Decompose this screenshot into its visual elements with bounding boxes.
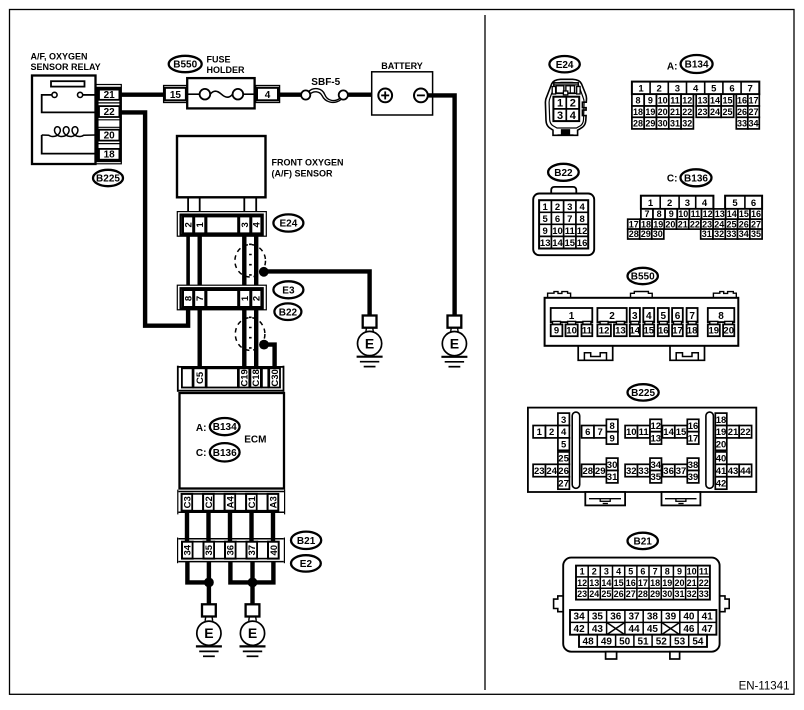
wire 36 to junction <box>230 562 252 583</box>
svg-text:C5: C5 <box>195 371 206 384</box>
svg-text:26: 26 <box>614 589 624 599</box>
connector B21 pin 40 <box>268 542 279 559</box>
junction shield-C30 <box>259 340 269 350</box>
svg-text:29: 29 <box>645 119 655 129</box>
wire relay 22 to E3-8 <box>121 112 189 325</box>
connector B225 pins 23-44 <box>533 452 752 490</box>
wire C2-35 <box>206 511 210 542</box>
shield drain dashes <box>249 244 252 279</box>
svg-text:49: 49 <box>601 636 613 647</box>
connector B225 pins 1-22 <box>533 413 752 451</box>
svg-text:4: 4 <box>616 567 621 577</box>
svg-text:46: 46 <box>683 624 695 635</box>
svg-text:28: 28 <box>629 229 639 239</box>
battery negative terminal <box>414 89 428 103</box>
connector B225 separator bar left <box>572 412 580 488</box>
ground E battery connector square <box>448 316 462 328</box>
connector B136 row pins 17-27 <box>628 219 762 229</box>
svg-text:1: 1 <box>569 311 575 322</box>
svg-text:4: 4 <box>252 222 263 228</box>
junction 34-35 <box>204 578 214 588</box>
svg-text:18: 18 <box>104 150 116 161</box>
svg-text:A/F, OXYGEN: A/F, OXYGEN <box>31 52 88 62</box>
ECM blank cell <box>192 494 203 511</box>
ECM blank cell <box>207 368 238 387</box>
relay K1 box <box>32 76 96 165</box>
svg-text:6: 6 <box>751 198 756 209</box>
connector strip separator lines <box>97 103 120 144</box>
svg-text:40: 40 <box>716 454 727 465</box>
svg-text:B22: B22 <box>279 307 298 318</box>
svg-text:37: 37 <box>676 466 687 477</box>
svg-text:30: 30 <box>658 119 668 129</box>
svg-text:12: 12 <box>651 421 662 432</box>
svg-text:27: 27 <box>751 219 761 229</box>
connector B134 row pins 28- <box>632 117 759 129</box>
svg-text:39: 39 <box>665 612 677 623</box>
svg-text:12: 12 <box>577 226 588 237</box>
svg-text:13: 13 <box>697 96 707 106</box>
svg-text:3: 3 <box>604 567 609 577</box>
ground E battery circle E <box>442 332 466 356</box>
svg-text:34: 34 <box>739 229 749 239</box>
svg-text:5: 5 <box>561 440 567 451</box>
svg-text:B136: B136 <box>684 173 708 184</box>
svg-text:E: E <box>365 336 374 352</box>
wire E24-2 to E3-8 <box>186 235 190 285</box>
svg-text:14: 14 <box>601 578 611 588</box>
svg-text:1: 1 <box>557 98 563 110</box>
connector E24 face grid <box>553 97 579 121</box>
svg-text:15: 15 <box>170 90 182 101</box>
svg-text:4: 4 <box>702 198 708 209</box>
ECM pin C3 <box>182 494 193 511</box>
svg-text:12: 12 <box>577 578 587 588</box>
svg-text:SENSOR RELAY: SENSOR RELAY <box>31 62 101 72</box>
svg-text:7: 7 <box>644 209 649 219</box>
oval B21 <box>291 532 321 549</box>
svg-text:14: 14 <box>727 209 737 219</box>
relay K1 contact bar <box>51 81 85 86</box>
svg-text:14: 14 <box>710 96 720 106</box>
wire 37 to ground <box>250 562 254 605</box>
connector E3 blank cell <box>206 290 238 307</box>
connector B134 row pins 8- <box>632 94 759 106</box>
svg-text:11: 11 <box>565 226 576 237</box>
wire C3-34 <box>185 511 189 542</box>
svg-text:9: 9 <box>543 226 548 237</box>
wire 34 to junction <box>187 562 209 583</box>
svg-text:20: 20 <box>658 107 668 117</box>
svg-text:45: 45 <box>647 624 659 635</box>
connector E3/B22 outer <box>177 285 266 310</box>
svg-text:2: 2 <box>252 296 263 301</box>
svg-text:18: 18 <box>716 415 727 426</box>
svg-text:B21: B21 <box>634 537 653 548</box>
ground E battery neck <box>450 328 453 332</box>
svg-text:13: 13 <box>615 326 626 337</box>
connector B136 header row 5-6 <box>725 196 762 209</box>
svg-text:22: 22 <box>740 427 751 438</box>
svg-text:17: 17 <box>748 96 758 106</box>
svg-text:FUSE: FUSE <box>207 55 231 65</box>
svg-text:21: 21 <box>670 107 680 117</box>
ECM pin C2 <box>203 494 214 511</box>
connector E24 blank cell <box>206 216 238 233</box>
wire pin21 to fuse 15 <box>121 92 166 96</box>
svg-text:31: 31 <box>702 229 712 239</box>
svg-text:19: 19 <box>709 326 720 337</box>
connector E24 pin 2 <box>183 216 193 233</box>
svg-text:28: 28 <box>633 119 643 129</box>
svg-text:8: 8 <box>184 296 195 301</box>
svg-text:6: 6 <box>555 214 560 225</box>
connector B225 foot left <box>585 492 625 505</box>
svg-text:6: 6 <box>585 427 590 438</box>
svg-text:A3: A3 <box>268 496 279 508</box>
connector E24 pin 4 <box>251 216 261 233</box>
svg-text:E: E <box>450 336 459 352</box>
svg-text:10: 10 <box>678 209 688 219</box>
svg-text:41: 41 <box>716 466 727 477</box>
svg-text:10: 10 <box>687 567 697 577</box>
svg-text:E24: E24 <box>556 60 574 71</box>
svg-text:37: 37 <box>628 612 640 623</box>
svg-text:13: 13 <box>715 209 725 219</box>
svg-text:40: 40 <box>683 612 695 623</box>
ECM blank cell <box>214 494 225 511</box>
svg-text:B134: B134 <box>685 60 709 71</box>
svg-text:20: 20 <box>104 131 116 142</box>
svg-text:7: 7 <box>598 427 603 438</box>
ground E left circle E <box>197 621 221 645</box>
relay K1 contact right <box>78 92 83 97</box>
oval E24 face <box>549 56 579 72</box>
svg-text:19: 19 <box>653 219 663 229</box>
ECM blank cell <box>235 494 246 511</box>
svg-text:48: 48 <box>583 636 595 647</box>
svg-text:11: 11 <box>691 209 701 219</box>
svg-text:13: 13 <box>589 578 599 588</box>
fuse F1 symbol <box>187 89 254 100</box>
svg-text:BATTERY: BATTERY <box>381 61 423 71</box>
svg-text:20: 20 <box>665 219 675 229</box>
relay K1 coil <box>42 127 96 137</box>
svg-text:5: 5 <box>661 311 667 322</box>
svg-text:10: 10 <box>566 326 577 337</box>
connector B21 side tab right <box>720 596 730 612</box>
svg-text:12: 12 <box>682 96 692 106</box>
svg-text:32: 32 <box>626 466 637 477</box>
connector B134 row pins 18- <box>632 106 759 117</box>
sensor pin stubs <box>188 197 256 211</box>
svg-text:3: 3 <box>632 311 638 322</box>
shield around wires 3 and 4 <box>235 245 266 277</box>
svg-text:19: 19 <box>645 107 655 117</box>
connector E3/B22 inner box <box>181 288 263 309</box>
svg-text:20: 20 <box>723 326 734 337</box>
svg-text:2: 2 <box>549 427 554 438</box>
connector B22 face grid <box>539 200 588 249</box>
ECM bottom connector row frame <box>178 490 285 515</box>
svg-text:21: 21 <box>687 578 697 588</box>
ground E right circle E <box>240 621 264 645</box>
connector E24 face latch <box>554 83 579 95</box>
svg-text:13: 13 <box>651 433 662 444</box>
svg-text:25: 25 <box>558 454 569 465</box>
svg-text:2: 2 <box>609 311 615 322</box>
svg-text:E3: E3 <box>282 285 295 296</box>
connector B21 pin 36 <box>225 542 236 559</box>
connector B21 pin 34 <box>182 542 193 559</box>
svg-text:34: 34 <box>574 612 586 623</box>
connector B21 pins 1-33 <box>576 566 710 600</box>
wire E24-1 to E3-7 <box>197 235 201 285</box>
svg-text:2: 2 <box>667 198 672 209</box>
connector E24 outer <box>177 212 266 237</box>
svg-text:22: 22 <box>699 578 709 588</box>
connector B550 foot right <box>670 346 705 361</box>
svg-text:15: 15 <box>739 209 749 219</box>
svg-text:23: 23 <box>534 466 545 477</box>
svg-text:17: 17 <box>672 326 683 337</box>
svg-text:C30: C30 <box>270 369 281 386</box>
svg-text:2: 2 <box>570 98 576 110</box>
svg-text:13: 13 <box>540 238 551 249</box>
svg-text:24: 24 <box>589 589 599 599</box>
svg-text:3: 3 <box>567 202 572 213</box>
svg-text:38: 38 <box>647 612 659 623</box>
svg-text:C:: C: <box>196 448 207 459</box>
connector B550 foot left <box>578 346 613 361</box>
fusible link SBF-5 <box>301 89 348 103</box>
pin 18 <box>99 149 119 160</box>
svg-text:29: 29 <box>650 589 660 599</box>
ECM pin C18 <box>250 368 261 387</box>
svg-text:5: 5 <box>711 83 717 94</box>
ECM pin C19 <box>239 368 250 387</box>
svg-text:SBF-5: SBF-5 <box>311 77 340 88</box>
connector E24 pin 3 <box>239 216 250 233</box>
svg-text:A:: A: <box>196 423 207 434</box>
svg-text:6: 6 <box>640 567 645 577</box>
svg-text:34: 34 <box>748 119 758 129</box>
svg-text:E2: E2 <box>300 559 313 570</box>
svg-text:33: 33 <box>638 466 649 477</box>
svg-text:16: 16 <box>577 238 588 249</box>
svg-text:EN-11341: EN-11341 <box>739 681 790 693</box>
svg-text:3: 3 <box>561 415 566 426</box>
connector B21 body <box>563 558 719 652</box>
connector B21/E2 row frame <box>178 538 285 564</box>
connector E24 face bottom key <box>558 130 574 135</box>
svg-text:ECM: ECM <box>244 435 266 446</box>
connector B225 body <box>528 408 756 492</box>
pin 21 <box>99 90 119 100</box>
connector B21 foot right <box>670 652 680 659</box>
connector B225 separator bar right <box>706 412 714 488</box>
connector E24 face outline <box>545 79 586 135</box>
oval B22 <box>274 303 301 320</box>
svg-text:1: 1 <box>543 202 549 213</box>
svg-text:35: 35 <box>651 472 662 483</box>
svg-text:35: 35 <box>751 229 761 239</box>
ECM pin C5 <box>194 368 206 387</box>
svg-text:36: 36 <box>610 612 622 623</box>
svg-text:23: 23 <box>697 107 707 117</box>
svg-text:7: 7 <box>567 214 572 225</box>
svg-text:19: 19 <box>662 578 672 588</box>
oval B134 <box>681 55 713 73</box>
svg-text:23: 23 <box>702 219 712 229</box>
connector B21 blank cell <box>193 542 204 559</box>
connector B21 pin 35 <box>204 542 215 559</box>
front oxygen sensor box <box>177 136 266 197</box>
svg-text:34: 34 <box>651 460 662 471</box>
svg-text:15: 15 <box>676 427 687 438</box>
svg-text:33: 33 <box>726 229 736 239</box>
svg-text:28: 28 <box>583 466 594 477</box>
svg-text:17: 17 <box>629 219 639 229</box>
svg-text:38: 38 <box>688 460 699 471</box>
svg-text:22: 22 <box>104 107 116 118</box>
svg-text:B22: B22 <box>554 168 573 179</box>
relay K1 contact wires <box>42 95 96 113</box>
svg-text:52: 52 <box>656 636 668 647</box>
svg-text:18: 18 <box>687 326 698 337</box>
svg-text:24: 24 <box>714 219 724 229</box>
svg-text:22: 22 <box>682 107 692 117</box>
svg-text:C:: C: <box>667 174 678 185</box>
svg-text:18: 18 <box>650 578 660 588</box>
svg-text:17: 17 <box>638 578 648 588</box>
svg-text:8: 8 <box>635 96 640 106</box>
svg-text:39: 39 <box>688 472 699 483</box>
wire shield to ECM C30 <box>264 345 275 367</box>
relay K1 contact left <box>52 92 57 97</box>
svg-text:8: 8 <box>665 567 670 577</box>
svg-text:28: 28 <box>638 589 648 599</box>
front oxygen sensor label <box>272 158 344 179</box>
oval E2 <box>291 555 321 571</box>
svg-text:2: 2 <box>555 202 560 213</box>
junction 36-37-40 <box>248 578 258 588</box>
svg-text:43: 43 <box>728 466 739 477</box>
ECM blank small cell <box>262 368 268 387</box>
svg-text:2: 2 <box>657 83 662 94</box>
svg-text:16: 16 <box>658 326 669 337</box>
connector B21 blank cell <box>214 542 225 559</box>
connector B134 header row <box>632 82 759 95</box>
svg-text:25: 25 <box>601 589 611 599</box>
svg-text:21: 21 <box>104 90 116 101</box>
svg-text:27: 27 <box>748 107 758 117</box>
svg-text:42: 42 <box>716 479 727 490</box>
wire B22-1 to ECM C19 <box>242 309 246 367</box>
svg-text:7: 7 <box>195 296 206 301</box>
svg-text:32: 32 <box>687 589 697 599</box>
svg-text:14: 14 <box>630 326 641 337</box>
svg-text:41: 41 <box>702 612 714 623</box>
svg-text:31: 31 <box>674 589 684 599</box>
svg-text:B225: B225 <box>96 174 120 185</box>
ground E right earth lines <box>240 645 266 647</box>
svg-text:32: 32 <box>682 119 692 129</box>
connector E24 face latch side tabs <box>552 87 580 95</box>
svg-text:29: 29 <box>641 229 651 239</box>
oval B550 face <box>628 268 658 284</box>
wire 35 to ground <box>207 562 211 605</box>
shield around wires 1 and 2 <box>235 318 265 351</box>
wire E24-3 to E3-1 <box>242 235 246 285</box>
connector B21 blank cell <box>236 542 247 559</box>
svg-text:31: 31 <box>607 472 618 483</box>
svg-text:31: 31 <box>670 119 680 129</box>
svg-text:10: 10 <box>626 427 637 438</box>
relay K1 A/F oxygen sensor relay label <box>31 52 101 73</box>
svg-text:24: 24 <box>546 466 557 477</box>
shield drain dashes lower <box>249 317 252 352</box>
svg-text:16: 16 <box>626 578 636 588</box>
svg-text:50: 50 <box>619 636 631 647</box>
svg-text:12: 12 <box>703 209 713 219</box>
svg-text:22: 22 <box>690 219 700 229</box>
svg-text:15: 15 <box>565 238 576 249</box>
svg-text:16: 16 <box>737 96 747 106</box>
svg-text:15: 15 <box>644 326 655 337</box>
svg-text:C19: C19 <box>240 369 251 386</box>
junction shield-ground <box>259 267 269 277</box>
svg-text:1: 1 <box>195 222 206 228</box>
connector B22 face body <box>533 194 594 256</box>
svg-text:1: 1 <box>580 567 585 577</box>
wire C1-37 <box>249 511 253 542</box>
wire A3-40 <box>271 511 275 542</box>
ground E right neck <box>248 617 251 621</box>
ECM top connector row frame <box>178 366 284 392</box>
svg-text:2: 2 <box>592 567 597 577</box>
svg-text:26: 26 <box>739 219 749 229</box>
svg-text:44: 44 <box>628 624 640 635</box>
connector B21 blank cell <box>257 542 268 559</box>
svg-text:5: 5 <box>543 214 549 225</box>
wire pin4 to SBF-5 <box>280 92 302 96</box>
oval B136 in ECM <box>210 443 240 461</box>
svg-text:20: 20 <box>674 578 684 588</box>
svg-text:11: 11 <box>639 427 650 438</box>
svg-text:3: 3 <box>240 222 251 227</box>
svg-text:6: 6 <box>675 311 681 322</box>
ground E left neck <box>204 617 207 621</box>
connector B550 body <box>545 298 739 346</box>
ECM pin C5 cell row <box>182 368 193 387</box>
ECM pin C1 <box>246 494 257 511</box>
ground E shield circle E <box>358 331 382 355</box>
svg-text:18: 18 <box>641 219 651 229</box>
svg-text:8: 8 <box>657 209 662 219</box>
svg-text:30: 30 <box>653 229 663 239</box>
svg-text:29: 29 <box>595 466 606 477</box>
connector B136 row pins 28-30 <box>628 229 664 239</box>
svg-text:33: 33 <box>699 589 709 599</box>
svg-text:26: 26 <box>558 466 569 477</box>
svg-text:8: 8 <box>579 214 584 225</box>
connector B21 pins 34-47 <box>570 610 716 635</box>
svg-text:18: 18 <box>633 107 643 117</box>
svg-text:1: 1 <box>537 427 543 438</box>
svg-text:3: 3 <box>557 110 563 122</box>
connector B550 small cells 9-20 <box>551 321 735 336</box>
